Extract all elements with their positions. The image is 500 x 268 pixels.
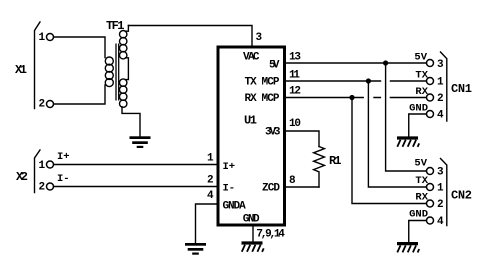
svg-text:R1: R1 xyxy=(329,154,342,168)
svg-text:3: 3 xyxy=(437,59,444,71)
svg-text:4: 4 xyxy=(437,110,444,122)
svg-text:I+: I+ xyxy=(223,161,236,173)
svg-text:5V: 5V xyxy=(269,60,280,72)
svg-text:GND: GND xyxy=(409,208,428,220)
svg-text:10: 10 xyxy=(289,118,301,130)
svg-text:1: 1 xyxy=(437,77,444,89)
svg-text:5V: 5V xyxy=(414,158,427,170)
svg-text:CN1: CN1 xyxy=(451,82,472,96)
svg-text:1: 1 xyxy=(207,153,214,165)
svg-text:2: 2 xyxy=(39,182,46,194)
svg-text:GNDA: GNDA xyxy=(223,201,247,213)
svg-text:GND: GND xyxy=(243,213,260,225)
svg-text:I+: I+ xyxy=(57,151,70,163)
svg-text:RX: RX xyxy=(415,191,428,203)
svg-text:ZCD: ZCD xyxy=(262,183,280,195)
svg-text:X1: X1 xyxy=(15,63,27,77)
svg-text:11: 11 xyxy=(289,70,300,82)
svg-text:4: 4 xyxy=(437,216,444,228)
svg-text:CN2: CN2 xyxy=(451,189,472,203)
svg-text:RX MCP: RX MCP xyxy=(245,93,280,105)
svg-text:4: 4 xyxy=(207,190,214,202)
svg-text:I-: I- xyxy=(57,173,70,185)
svg-text:3: 3 xyxy=(437,167,444,179)
svg-text:1: 1 xyxy=(39,160,46,172)
svg-text:7,9,14: 7,9,14 xyxy=(256,229,285,241)
svg-text:2: 2 xyxy=(437,93,444,105)
svg-text:U1: U1 xyxy=(244,114,257,128)
svg-text:3V3: 3V3 xyxy=(265,127,281,139)
svg-text:5V: 5V xyxy=(414,52,427,64)
svg-text:TX MCP: TX MCP xyxy=(245,77,280,89)
svg-text:3: 3 xyxy=(256,32,263,44)
svg-text:RX: RX xyxy=(415,86,428,98)
svg-text:TX: TX xyxy=(415,175,428,187)
svg-text:2: 2 xyxy=(437,199,444,211)
svg-text:8: 8 xyxy=(289,175,296,187)
svg-text:13: 13 xyxy=(289,52,301,64)
svg-text:12: 12 xyxy=(289,86,301,98)
svg-text:2: 2 xyxy=(207,174,214,186)
svg-text:2: 2 xyxy=(39,99,46,111)
svg-text:TX: TX xyxy=(415,69,428,81)
svg-text:TF1: TF1 xyxy=(106,19,125,33)
svg-text:X2: X2 xyxy=(16,170,28,184)
svg-text:VAC: VAC xyxy=(243,52,260,64)
svg-text:1: 1 xyxy=(437,183,444,195)
svg-text:GND: GND xyxy=(409,102,428,114)
svg-text:1: 1 xyxy=(39,32,46,44)
svg-text:I-: I- xyxy=(223,183,236,195)
